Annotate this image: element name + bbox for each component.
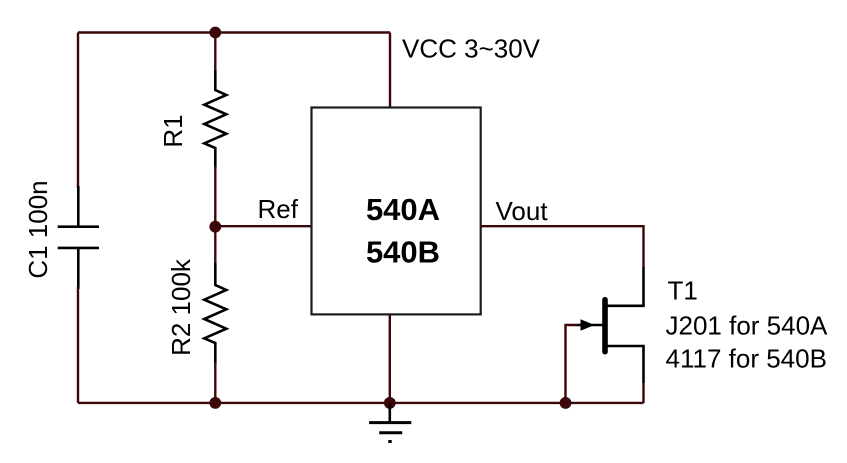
svg-text:Ref: Ref	[258, 194, 299, 224]
wire VCC to R1	[214, 33, 216, 73]
wire left vertical VCC to C1	[77, 33, 79, 189]
svg-text:Vout: Vout	[496, 196, 549, 226]
junction dot ground node	[384, 397, 396, 409]
wire R2 to ground rail	[214, 362, 216, 403]
wire R1 to Ref node	[214, 166, 216, 227]
svg-text:J201 for 540A: J201 for 540A	[666, 311, 829, 341]
junction dot gate/ground rail	[560, 397, 572, 409]
svg-text:T1: T1	[668, 276, 698, 306]
svg-text:VCC 3~30V: VCC 3~30V	[402, 33, 541, 63]
svg-text:4117 for 540B: 4117 for 540B	[666, 343, 827, 373]
junction dot Ref node	[209, 221, 221, 233]
junction dot VCC/R1	[209, 27, 221, 39]
ground symbol	[369, 403, 411, 442]
svg-text:540B: 540B	[366, 234, 440, 269]
svg-text:540A: 540A	[366, 192, 440, 227]
wire top VCC rail	[78, 31, 390, 33]
junction dot R2/ground rail	[209, 397, 221, 409]
resistor R1	[204, 71, 226, 168]
svg-text:R1: R1	[158, 114, 188, 147]
transistor T1 JFET	[577, 300, 644, 383]
wire box bottom pin to ground node	[389, 314, 391, 403]
wire VCC to box top pin	[389, 33, 391, 108]
wire T1 gate to ground rail	[566, 325, 579, 403]
wire Ref node to R2	[214, 227, 216, 264]
wire C1 to ground rail	[77, 287, 79, 403]
wire ground rail bottom	[78, 402, 644, 404]
resistor R2	[204, 263, 226, 364]
wire T1 source to ground rail	[642, 382, 644, 403]
svg-text:C1 100n: C1 100n	[23, 180, 53, 278]
wire Ref node to box pin	[215, 225, 311, 227]
wire Vout	[481, 226, 644, 268]
wire Vout to T1 drain (black segment)	[606, 267, 644, 306]
capacitor C1	[58, 186, 99, 289]
svg-text:R2 100k: R2 100k	[166, 258, 196, 356]
IC box 540A/540B	[312, 108, 481, 315]
